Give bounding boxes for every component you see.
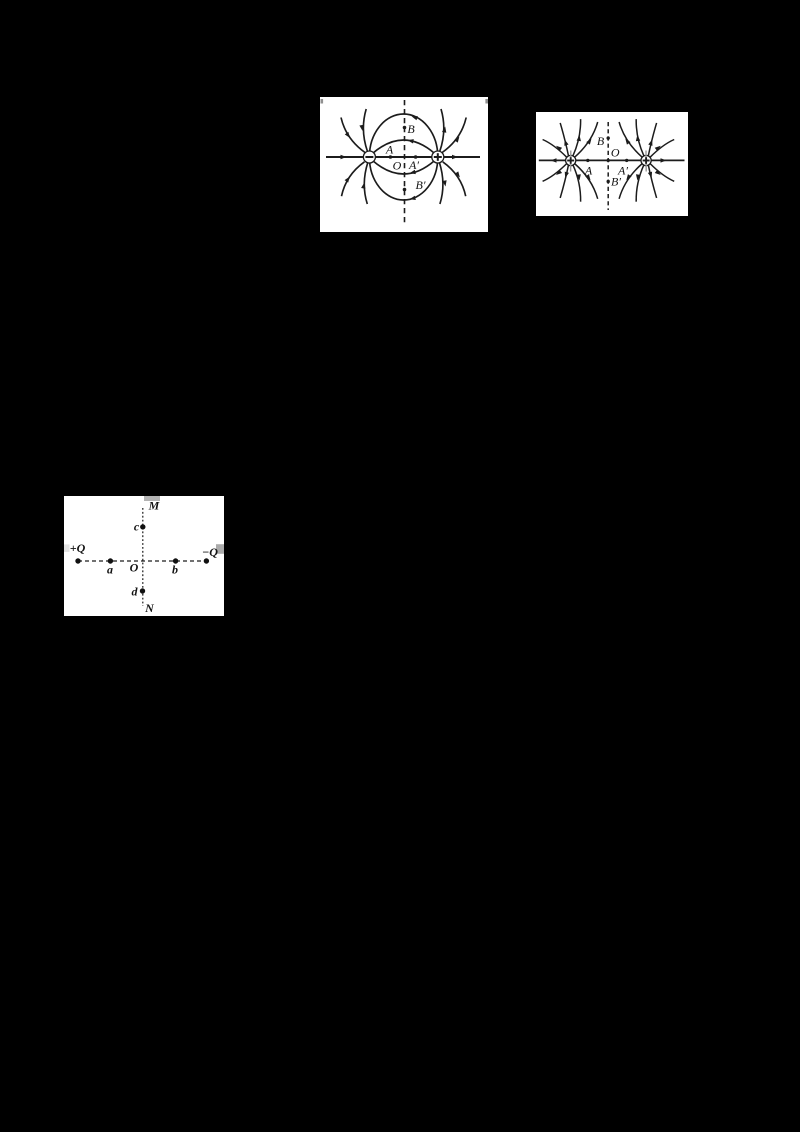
arrowhead bottom of oval (pointing left)	[409, 196, 416, 202]
svg-text:B′: B′	[416, 178, 426, 192]
node dot O	[607, 159, 610, 162]
svg-text:B: B	[407, 122, 415, 136]
arrowhead left charge upper-right bending	[586, 137, 593, 144]
arrowhead axis left (pointing left)	[551, 158, 557, 162]
svg-text:B′: B′	[611, 174, 621, 188]
svg-text:O: O	[130, 561, 139, 575]
charge dot +Q	[75, 558, 80, 563]
node dot B'	[403, 188, 407, 192]
left charge field line: upper-left steep	[560, 123, 568, 156]
right charge field line: lower vertical	[636, 165, 644, 202]
arrowhead right charge lower vertical	[635, 174, 640, 180]
panel 1: dipole field lines figure	[320, 97, 488, 232]
positive charge symbol	[432, 151, 444, 163]
outer field-line oval (tall ellipse through both charges)	[369, 114, 437, 200]
arrowhead left charge lower vertical	[576, 174, 581, 180]
svg-text:O: O	[393, 159, 402, 173]
arrowhead right charge upper-left bending	[623, 137, 630, 144]
svg-text:b: b	[172, 563, 178, 577]
node dot a	[108, 558, 113, 563]
left charge field line: upper-right bending away	[575, 122, 598, 157]
left charge field line: upper far-left	[543, 140, 567, 158]
left charge field line: lower far-left	[543, 164, 567, 182]
field line out of plus: upper-right diagonal	[442, 118, 466, 153]
wire horizontal axis line	[539, 159, 685, 161]
right charge field line: upper far-right	[650, 140, 674, 158]
right charge field line: lower-left bending away	[619, 164, 642, 199]
arrowhead lower-left steep into minus	[361, 182, 366, 189]
arrowhead upper inner arc (pointing left)	[407, 138, 414, 143]
arrowhead right charge lower-right steep	[648, 172, 654, 179]
svg-text:M: M	[148, 499, 160, 513]
left charge field line: lower-right bending away	[575, 164, 598, 199]
gray handle above M	[144, 496, 160, 501]
field line out of plus: lower-right steep	[439, 163, 443, 205]
node dot A	[586, 159, 589, 162]
arrowhead on axis left	[341, 155, 347, 159]
arrowhead axis right (pointing right)	[661, 158, 667, 162]
left charge field line: lower-left steep	[560, 165, 568, 198]
arrowhead right charge upper far-right	[655, 144, 662, 151]
left charge field line: upper vertical	[573, 119, 581, 156]
right charge field line: upper-left bending away	[619, 122, 642, 157]
arrowhead right charge lower-left bending	[624, 174, 631, 181]
gray handle top-left corner	[321, 99, 324, 104]
svg-text:−Q: −Q	[202, 545, 218, 559]
gray smudge left of +Q	[64, 544, 70, 552]
svg-text:c: c	[134, 520, 140, 534]
arrowhead left charge lower-left steep	[563, 172, 569, 179]
svg-text:A: A	[584, 164, 593, 178]
node dot d	[140, 588, 145, 593]
arrowhead lower-right steep out of plus	[442, 180, 447, 187]
field line out of plus: upper-right steep	[440, 109, 444, 152]
upper inner field arc from + to -	[373, 140, 435, 154]
node dot B	[403, 126, 407, 130]
node dot A'	[414, 155, 418, 159]
arrowhead top of oval (pointing left)	[411, 114, 418, 120]
field line into minus: upper-left diagonal	[341, 118, 365, 153]
right charge field line: upper vertical	[636, 119, 644, 156]
gray handle top-right corner	[485, 99, 488, 104]
svg-text:O: O	[611, 145, 620, 159]
arrowhead left charge lower far-left	[555, 170, 562, 177]
svg-text:a: a	[107, 563, 113, 577]
arrowhead upper-left steep into minus	[359, 125, 364, 132]
dashed vertical symmetry line	[404, 100, 406, 226]
arrowhead upper-right steep out of plus	[442, 126, 447, 133]
node dot B	[607, 136, 610, 139]
panel 2: two like charges field lines figure	[536, 112, 688, 216]
node dot A'	[625, 159, 628, 162]
svg-text:N: N	[144, 601, 155, 615]
node dot b	[173, 558, 178, 563]
right charge field line: lower far-right	[650, 164, 674, 182]
dotted vertical line M to N	[142, 508, 144, 606]
field line into minus: lower-left steep	[364, 163, 368, 205]
dashed horizontal line +Q to -Q	[78, 560, 206, 562]
left charge field line: lower vertical	[573, 165, 581, 202]
arrowhead left charge upper far-left	[555, 144, 562, 151]
svg-text:d: d	[132, 585, 139, 599]
svg-text:A: A	[385, 143, 394, 157]
negative charge symbol	[363, 151, 375, 163]
arrowhead right charge lower far-right	[655, 170, 662, 177]
wire horizontal axis line	[326, 156, 480, 158]
dashed vertical symmetry line	[607, 122, 609, 210]
panel 3: +Q -Q points figure	[64, 496, 224, 616]
arrowhead upper-right diagonal out of plus	[454, 135, 461, 142]
arrowhead on axis right	[452, 155, 458, 159]
field line into minus: upper-left steep	[363, 109, 367, 152]
arrowhead lower-right diagonal out of plus	[455, 171, 462, 178]
field line out of plus: lower-right diagonal	[443, 162, 466, 196]
arrowhead left charge lower-right bending	[585, 174, 592, 181]
svg-text:B: B	[597, 134, 605, 148]
charge dot -Q	[204, 558, 209, 563]
arrowhead upper-left diagonal into minus	[345, 132, 352, 139]
arrowhead lower-left diagonal into minus	[345, 175, 352, 182]
gray handle right of -Q	[216, 544, 224, 554]
node dot c	[140, 524, 145, 529]
left positive charge symbol	[566, 151, 576, 172]
right positive charge symbol	[641, 151, 651, 172]
node dot B'	[607, 180, 610, 183]
right charge field line: lower-right steep	[648, 165, 656, 198]
arrowhead right charge upper vertical	[635, 135, 640, 141]
field line into minus: lower-left diagonal	[342, 162, 365, 196]
svg-text:+Q: +Q	[70, 541, 86, 555]
arrowhead right charge upper-right steep	[648, 139, 654, 146]
arrowhead lower inner arc (pointing left)	[409, 170, 416, 176]
svg-text:A′: A′	[408, 158, 419, 172]
arrowhead left charge upper-left steep	[563, 139, 569, 146]
node dot A	[389, 155, 393, 159]
arrowhead left charge upper vertical	[577, 135, 582, 141]
lower inner field arc from + to -	[373, 161, 435, 175]
right charge field line: upper-right steep	[648, 123, 656, 156]
